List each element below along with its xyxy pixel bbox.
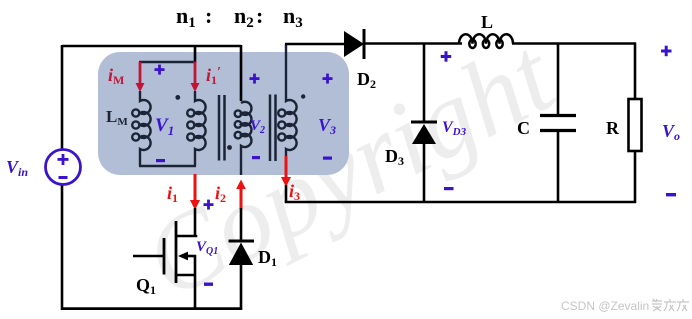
svg-text:i1: i1	[167, 183, 178, 205]
wire D2 to L	[364, 42, 462, 45]
minus V3	[323, 157, 332, 160]
dot V1	[175, 95, 180, 100]
winding V3	[278, 44, 296, 157]
plus VQ1 top	[204, 200, 214, 210]
gate lead	[133, 255, 164, 258]
channel bar	[175, 221, 178, 283]
core bars left	[219, 95, 225, 161]
gate bar	[163, 238, 166, 275]
inductor LM winding	[132, 91, 150, 166]
svg-text:L: L	[481, 12, 493, 32]
core bars right	[270, 95, 276, 162]
transformer highlight box	[98, 52, 349, 175]
current arrow i3 (red segment, down)	[281, 156, 291, 187]
wire V2 bottom to D1	[240, 208, 243, 242]
wire output bottom rail	[285, 201, 636, 204]
svg-text:Vin: Vin	[6, 157, 28, 179]
minus V2	[252, 156, 260, 159]
svg-text:Q1: Q1	[136, 275, 156, 297]
wire left rail lower	[61, 185, 64, 310]
minus Vo	[666, 193, 676, 196]
svg-text:n1: n1	[176, 3, 196, 31]
wire V3 bottom corner to output rail	[285, 185, 288, 202]
winding V2	[235, 102, 252, 175]
diode D2	[344, 29, 364, 59]
voltage source Vin	[46, 150, 81, 185]
source stub	[176, 274, 196, 277]
plus V2	[250, 74, 260, 84]
svg-text::: :	[205, 3, 212, 28]
minus VQ1	[204, 283, 213, 286]
source vertical	[194, 255, 197, 310]
watermark CJK chars (drawn)	[652, 299, 689, 311]
current arrow i1'	[191, 62, 200, 92]
svg-text:R: R	[606, 118, 620, 138]
transistor Q1	[133, 221, 196, 310]
svg-text:C: C	[517, 118, 530, 138]
drain stub	[176, 235, 196, 236]
plus V3	[323, 74, 333, 84]
wire bottom rail left	[61, 307, 242, 310]
resistor R	[629, 43, 642, 204]
winding V1	[187, 91, 205, 166]
capacitor C	[540, 43, 576, 203]
current arrow iM	[136, 62, 145, 92]
minus D3	[444, 187, 454, 190]
svg-text:Vo: Vo	[662, 121, 680, 143]
svg-text:n3: n3	[283, 3, 303, 31]
dot V3	[301, 94, 305, 98]
svg-text:D2: D2	[357, 69, 376, 91]
current arrow i2 (red segment, up)	[236, 180, 246, 210]
wire top-left horizontal (Vin+ to transformer)	[62, 45, 241, 48]
svg-text::: :	[256, 3, 263, 28]
body arrow stub	[183, 255, 196, 258]
diode D3 branch	[411, 43, 437, 204]
plus Vo	[661, 46, 672, 57]
wire bar over LM and V1	[139, 61, 196, 64]
wire bottom bar LM-V1	[139, 165, 196, 168]
minus V1	[156, 159, 165, 162]
diode D1	[229, 241, 255, 310]
wire L to right corner	[512, 42, 636, 45]
wire V2 top drop	[240, 45, 243, 101]
dot V2	[227, 145, 232, 150]
inductor L	[459, 34, 513, 48]
svg-text:CSDN @Zevalin: CSDN @Zevalin	[561, 299, 649, 313]
plus V1 top	[155, 65, 165, 75]
svg-text:n2: n2	[234, 3, 254, 31]
current arrow i1 (red segment)	[190, 174, 200, 210]
wire left rail upper	[61, 45, 64, 149]
wire primary top drop at x=195	[194, 46, 197, 63]
plus D3	[441, 51, 452, 62]
wire V3 top to D2	[285, 43, 345, 46]
wire V1 bottom to Q1 drain	[194, 208, 197, 236]
